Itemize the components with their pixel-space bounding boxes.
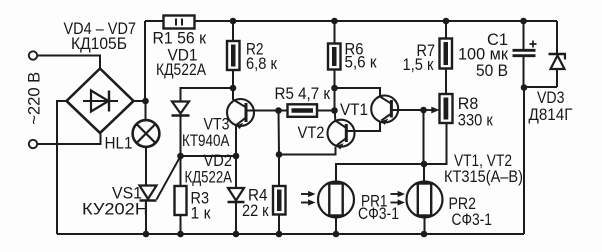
wire VT1 base [391,109,423,111]
node VT1 collector tap [331,85,338,92]
wire PR2 drop [423,164,425,182]
svg-text:Д814Г: Д814Г [529,106,573,124]
wire node to lamp [145,101,147,121]
potentiometer R8 [440,94,453,123]
wire R8 bottom to PR node [424,123,447,164]
transistor VT1 [371,96,398,125]
node R4 emitter [276,151,283,158]
node C1 bottom [521,84,528,91]
wire PR node to PR1 [336,164,424,182]
thyristor VS1 [140,157,181,201]
wire R2 top [232,21,234,41]
svg-text:100 мк: 100 мк [458,46,509,64]
wire R6 bottom [334,70,336,111]
terminal X1 [29,51,37,59]
svg-text:КТ940А: КТ940А [182,132,230,150]
wire top rail right segment [195,20,558,22]
capacitor C1 [513,21,537,88]
svg-text:R5 4,7 к: R5 4,7 к [275,85,331,103]
wire VT2 base to VT1 emitter [346,123,380,132]
wire VT3 base to R5 [246,110,288,112]
svg-text:КД522А: КД522А [156,61,206,79]
svg-text:VT2: VT2 [298,124,325,142]
terminal X2 [29,140,37,148]
svg-text:VD3: VD3 [537,89,565,107]
wire right edge [523,88,525,235]
node junction R2 top [230,18,237,25]
node junction C1 top [520,18,527,25]
node R2 VD1 [230,85,237,92]
wire node to VT3 collector [232,88,234,100]
node PR1 bottom [333,231,340,238]
node VS1 bottom [143,231,150,238]
node emitter junction [233,153,240,160]
wire R4 bottom [278,215,280,235]
wire bridge left corner to bottom rail [57,101,67,234]
arrows light PR1 [301,191,316,206]
arrows light PR2 [391,191,406,206]
node VD2 bottom [233,231,240,238]
svg-text:VD2: VD2 [204,152,233,170]
wire PR1 bottom [335,218,337,235]
resistor R2 [227,41,240,70]
svg-text:330 к: 330 к [458,112,494,130]
node junction R6 top [331,18,338,25]
node bridge plus [142,98,149,105]
svg-text:VT1: VT1 [340,101,368,119]
wire VD1 cathode [180,116,182,157]
svg-text:КД105Б: КД105Б [71,35,127,53]
wire VT2 emitter horizontal [279,147,336,155]
wire VS1 to bottom rail [145,201,147,235]
wire R8 node column [423,110,425,164]
wire R7 to R8 [445,69,447,95]
resistor R6 [328,44,341,70]
wire C1 to VD3 [524,86,557,88]
svg-text:22 к: 22 к [242,202,269,220]
svg-text:КУ202Н: КУ202Н [82,201,148,219]
zener diode VD3 [549,21,567,87]
svg-text:R1 56 к: R1 56 к [153,30,207,48]
svg-text:1,5 к: 1,5 к [403,56,435,74]
wire R4 column [278,111,281,187]
wire DC plus column [144,21,146,101]
svg-text:6,8 к: 6,8 к [246,55,278,73]
transistor VT2 [328,120,355,150]
wire bridge right corner to node [134,100,147,102]
svg-text:КД522А: КД522А [185,169,233,187]
wire PR2 bottom [424,218,426,235]
svg-text:СФ3-1: СФ3-1 [452,211,493,229]
wire VT2 collector [334,111,337,121]
wire VT3 emitter [235,126,237,157]
node gate junction [177,153,184,160]
svg-text:50 В: 50 В [476,62,508,80]
wire R6 top [334,21,336,44]
photoresistor PR1 [318,182,354,218]
svg-text:5,6 к: 5,6 к [345,54,378,72]
wire X1 to bridge top [37,56,100,69]
wire bottom rail [57,233,524,235]
svg-text:1 к: 1 к [191,205,212,223]
svg-text:HL1: HL1 [105,135,133,153]
lamp HL1 [133,120,160,147]
svg-text:R8: R8 [458,95,479,113]
wire R3 bottom [180,215,182,234]
wire wiper arrow to R8 [424,107,440,114]
resistor R4 [273,186,286,215]
wire VD1 anode [181,88,234,102]
diode VD2 [228,156,245,234]
wire R5 to R6 node [317,110,335,112]
diode VD1 [172,102,190,116]
wire X2 to bridge bottom [37,134,100,145]
resistor R7 [440,39,453,69]
resistor R1 [164,16,195,29]
wire VT1 collector [335,88,381,96]
svg-text:VT3: VT3 [204,116,230,134]
node PR2 top [421,161,428,168]
resistor R3 [175,186,187,215]
node junction R7 top [443,18,450,25]
node PR2 bottom [421,231,428,238]
node R3 bottom [177,231,184,238]
wire R7 top [445,21,447,39]
svg-text:КТ315(А–В): КТ315(А–В) [444,168,523,186]
node R4 bottom [276,231,283,238]
wire lamp to VS1 [145,147,147,186]
svg-text:~220 В: ~220 В [26,72,44,125]
resistor R5 [288,104,318,117]
svg-text:СФ3-1: СФ3-1 [358,205,399,223]
node R6 bottom [331,107,338,114]
bridge rectifier VD4-VD7 [67,69,134,134]
transistor VT3 [227,99,254,129]
node VT1 base R8 [420,107,427,114]
wire top rail left segment [145,20,164,22]
wire R2 bottom [232,70,234,88]
wire gate node to emitter node [181,155,237,157]
photoresistor PR2 [407,182,443,218]
node R5 left [275,107,282,114]
wire R3 top [180,156,182,186]
